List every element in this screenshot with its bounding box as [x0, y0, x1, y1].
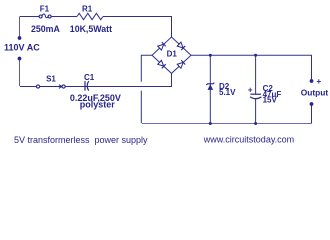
- svg-text:www.circuitstoday.com: www.circuitstoday.com: [203, 134, 294, 144]
- svg-text:S1: S1: [46, 75, 56, 84]
- svg-text:5.1V: 5.1V: [219, 88, 236, 97]
- svg-text:15V: 15V: [263, 96, 278, 105]
- svg-text:R1: R1: [82, 4, 93, 13]
- svg-text:+: +: [317, 77, 322, 86]
- svg-text:110V AC: 110V AC: [4, 43, 40, 53]
- svg-text:F1: F1: [40, 4, 50, 13]
- svg-text:Output: Output: [301, 87, 329, 97]
- svg-text:250mA: 250mA: [31, 24, 60, 34]
- svg-text:polyster: polyster: [80, 99, 116, 109]
- svg-text:D1: D1: [167, 50, 178, 59]
- svg-text:10K,5Watt: 10K,5Watt: [70, 24, 112, 34]
- svg-text:5V transformerless power supp: 5V transformerless power supply: [14, 135, 148, 145]
- svg-text:+: +: [248, 86, 253, 95]
- svg-text:C1: C1: [84, 73, 95, 82]
